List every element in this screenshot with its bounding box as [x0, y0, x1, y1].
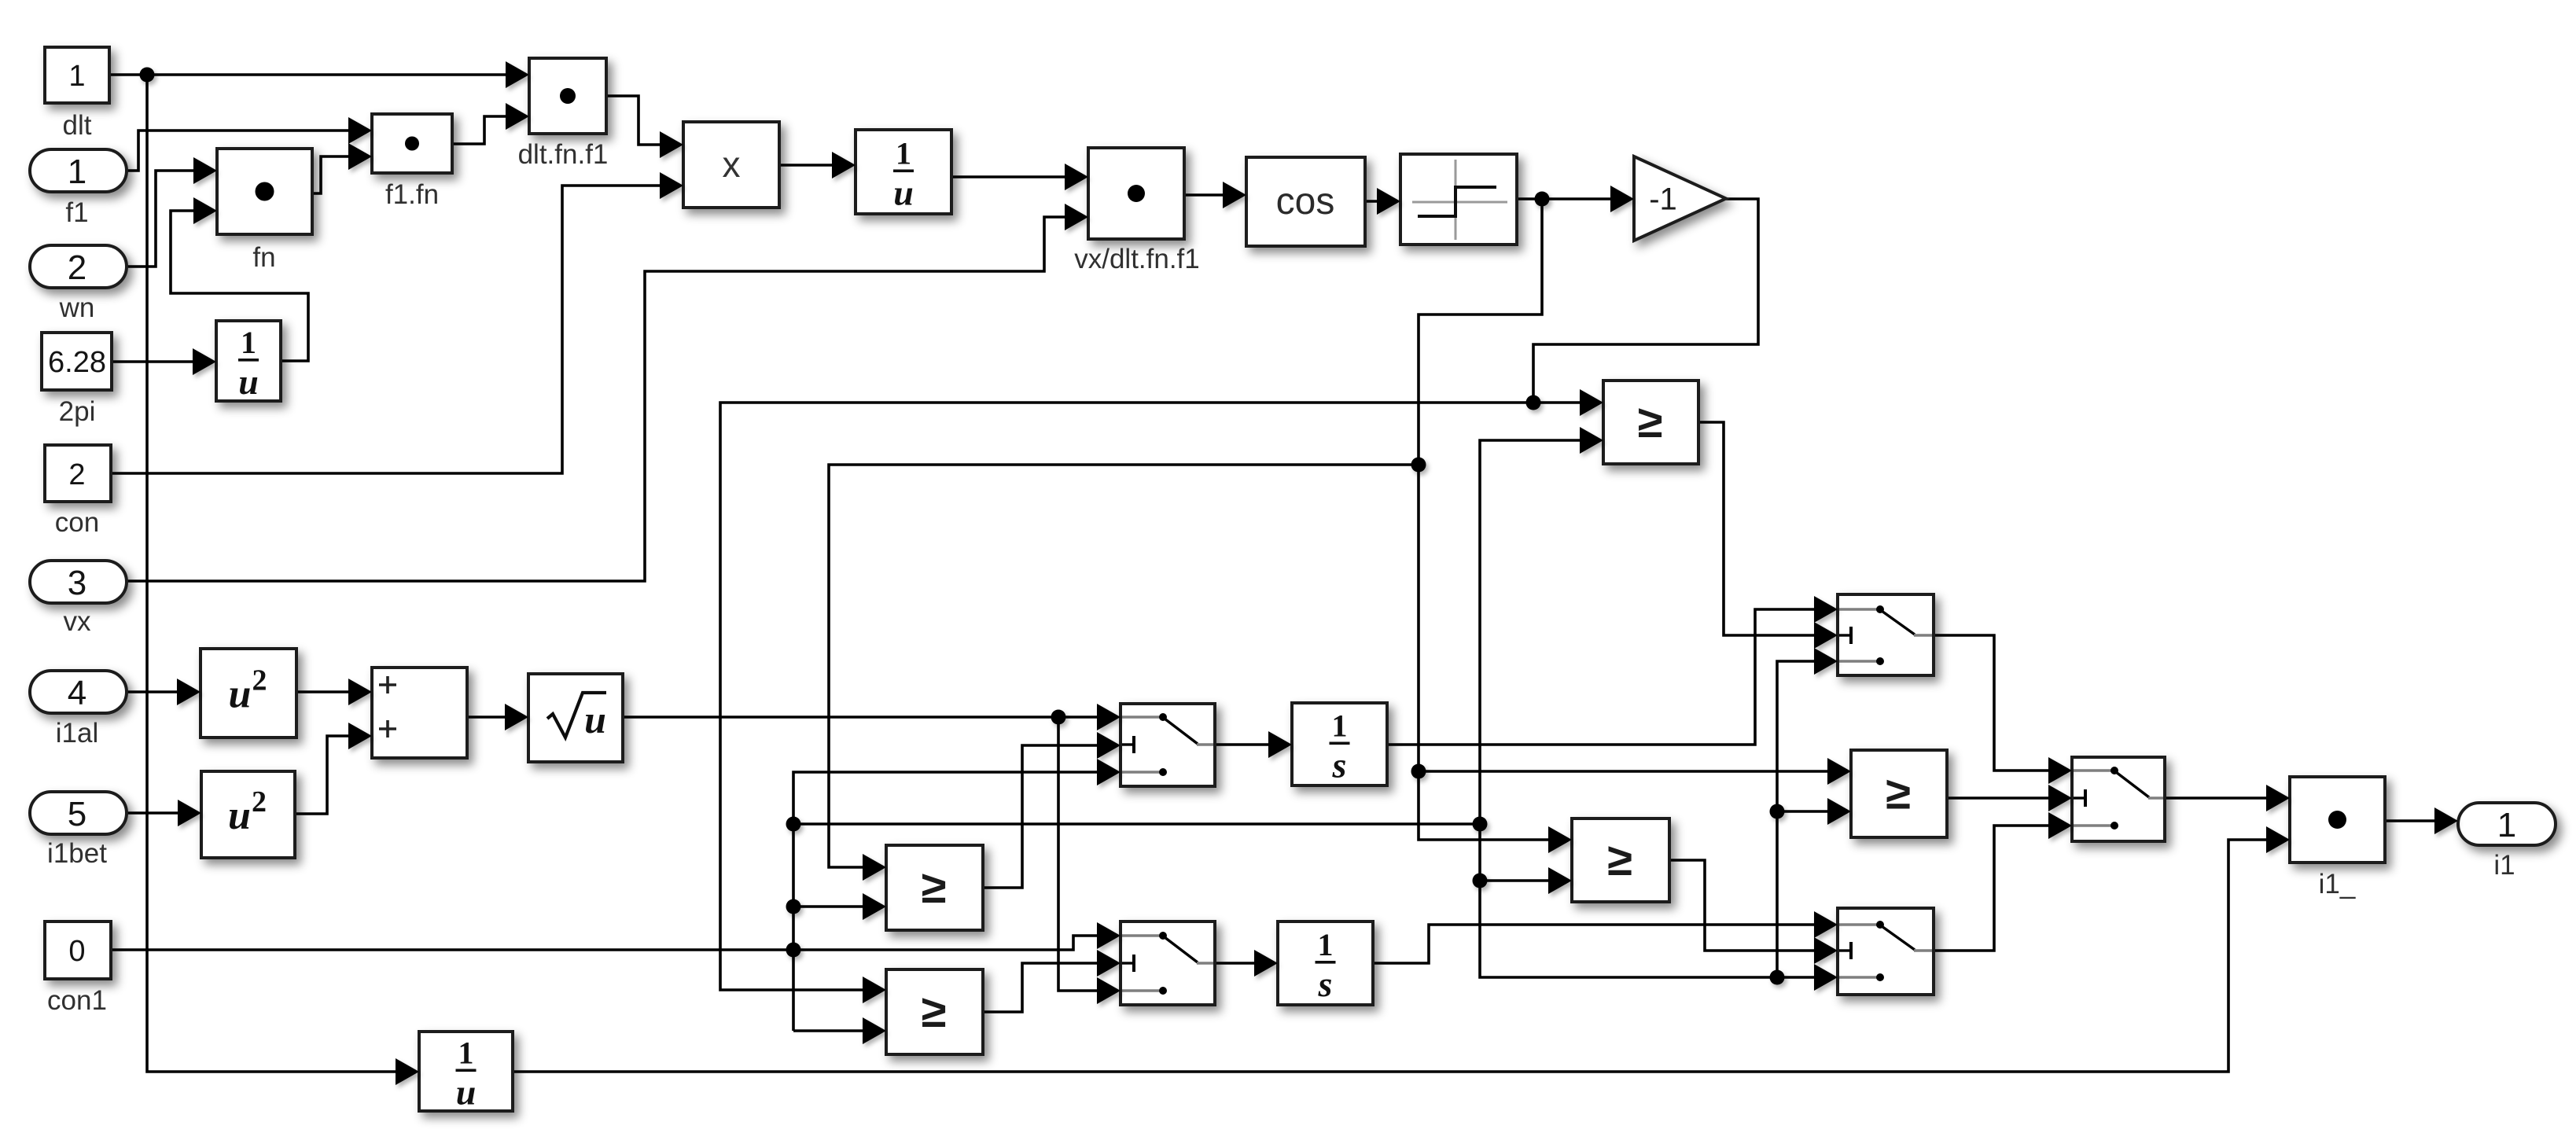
svg-text:x: x	[723, 144, 741, 185]
svg-text:u: u	[228, 793, 251, 838]
svg-text:1: 1	[896, 136, 911, 171]
svg-text:s: s	[1318, 964, 1333, 1004]
svg-text:3: 3	[68, 564, 86, 602]
svg-text:0: 0	[68, 935, 85, 968]
svg-text:f1.fn: f1.fn	[385, 179, 439, 210]
svg-text:dlt: dlt	[63, 110, 92, 141]
svg-text:4: 4	[68, 674, 86, 712]
svg-text:-1: -1	[1649, 182, 1677, 217]
svg-text:cos: cos	[1276, 181, 1335, 223]
svg-text:1: 1	[458, 1036, 474, 1071]
svg-text:≥: ≥	[1886, 768, 1911, 819]
svg-text:1: 1	[68, 60, 85, 93]
svg-text:i1al: i1al	[56, 718, 98, 749]
svg-text:2: 2	[252, 664, 267, 697]
svg-text:≥: ≥	[922, 986, 947, 1037]
svg-text:1: 1	[1332, 708, 1348, 744]
svg-text:≥: ≥	[922, 862, 947, 913]
svg-text:i1: i1	[2493, 850, 2515, 881]
svg-text:con: con	[55, 507, 99, 538]
svg-text:f1: f1	[65, 197, 88, 228]
svg-text:u: u	[229, 672, 252, 717]
svg-text:2: 2	[68, 458, 85, 491]
svg-text:1: 1	[241, 325, 256, 360]
svg-text:wn: wn	[59, 292, 95, 323]
svg-text:6.28: 6.28	[48, 346, 106, 379]
svg-text:u: u	[456, 1072, 477, 1113]
svg-text:5: 5	[68, 795, 86, 833]
svg-text:dlt.fn.f1: dlt.fn.f1	[518, 139, 609, 170]
svg-text:1: 1	[2497, 806, 2516, 844]
svg-text:≥: ≥	[1638, 396, 1663, 447]
svg-text:con1: con1	[47, 985, 107, 1016]
svg-text:2pi: 2pi	[59, 396, 96, 427]
svg-text:1: 1	[1318, 927, 1334, 962]
svg-text:2: 2	[252, 785, 267, 818]
svg-text:fn: fn	[252, 242, 275, 273]
svg-text:s: s	[1332, 745, 1347, 785]
svg-text:2: 2	[68, 248, 86, 287]
svg-text:1: 1	[68, 153, 86, 191]
svg-text:u: u	[584, 697, 606, 741]
svg-text:i1bet: i1bet	[47, 838, 107, 869]
svg-text:i1_: i1_	[2319, 869, 2356, 899]
svg-text:u: u	[238, 362, 259, 402]
svg-text:vx/dlt.fn.f1: vx/dlt.fn.f1	[1074, 244, 1200, 274]
svg-text:≥: ≥	[1607, 834, 1632, 885]
svg-text:vx: vx	[64, 606, 92, 637]
svg-text:u: u	[893, 173, 914, 213]
